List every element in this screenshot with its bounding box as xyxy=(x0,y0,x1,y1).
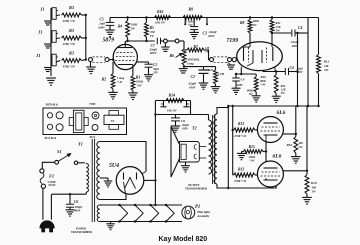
capacitor tick Ca xyxy=(160,101,166,107)
tube heater 2 xyxy=(134,204,143,223)
layout socket with key xyxy=(92,112,99,119)
label R3 #3 xyxy=(62,50,76,68)
switch S1 contact 1 xyxy=(55,160,59,164)
svg-text:1 meg: 1 meg xyxy=(186,62,194,66)
svg-text:S1: S1 xyxy=(57,149,62,154)
label R5 xyxy=(150,26,155,38)
label 7199 xyxy=(227,38,239,44)
label C5 xyxy=(99,18,107,30)
speaker voice coil frame xyxy=(180,142,200,163)
resistor R13b xyxy=(233,173,258,177)
label F1 xyxy=(48,174,56,187)
wire R7 to shield xyxy=(204,50,210,60)
capacitor C2 xyxy=(199,67,209,83)
svg-text:R10: R10 xyxy=(311,181,317,185)
V3 grid dashed xyxy=(261,130,281,132)
wire grid feed bus xyxy=(232,106,234,175)
layout transformer T1 xyxy=(104,111,124,130)
svg-text:470K ½W: 470K ½W xyxy=(62,65,76,69)
svg-text:470K ½W: 470K ½W xyxy=(233,134,247,138)
svg-text:400V: 400V xyxy=(207,34,216,38)
ground at jack 2 xyxy=(44,44,52,48)
capacitor C3 xyxy=(190,18,198,33)
svg-text:5U4: 5U4 xyxy=(90,135,96,139)
resistor R3 #2 xyxy=(62,36,82,40)
resistor R1 xyxy=(131,65,135,93)
ground C8 xyxy=(171,126,181,132)
V2 pentode plate xyxy=(271,45,274,62)
label R15 xyxy=(249,145,257,162)
shield connector c1 xyxy=(210,58,214,62)
svg-text:6L6: 6L6 xyxy=(273,153,282,159)
svg-text:R16: R16 xyxy=(287,143,293,147)
label J1 #2 xyxy=(37,30,43,35)
V1 cathode xyxy=(118,64,133,66)
label J1 #3 xyxy=(35,53,41,58)
T1 center tap ground xyxy=(100,178,112,187)
wire fuse to switch xyxy=(42,162,54,169)
label P1 xyxy=(195,205,210,218)
V1 suppressor dashed xyxy=(116,56,135,58)
ground shield xyxy=(86,62,96,74)
label C6 xyxy=(74,200,83,213)
svg-text:R13: R13 xyxy=(238,168,244,172)
V4 grid dashed xyxy=(261,175,281,177)
svg-text:R16: R16 xyxy=(157,10,163,14)
label R8 xyxy=(240,19,260,27)
ground R21 xyxy=(211,87,221,93)
wire plug left xyxy=(42,188,44,219)
wire heater winding taps xyxy=(100,205,103,222)
label R13b xyxy=(233,168,247,184)
resistor R3 #3 xyxy=(62,59,82,63)
svg-text:10K 1W: 10K 1W xyxy=(167,109,177,113)
V1 plate xyxy=(118,41,132,48)
resistor R21 xyxy=(214,67,218,87)
ground R1 xyxy=(128,93,138,100)
voice coil turns xyxy=(194,145,196,159)
svg-text:C4: C4 xyxy=(298,26,303,30)
label C7 xyxy=(149,44,158,55)
resistor R16 xyxy=(155,16,171,20)
V3 screen dashed xyxy=(262,126,280,128)
ground C5 xyxy=(105,30,115,37)
rectifier V5 5U4 envelope xyxy=(116,167,144,195)
wire between connectors xyxy=(167,40,175,42)
wire B+ rail top xyxy=(110,17,319,19)
beam tetrode V3 6L6 envelope xyxy=(257,117,283,143)
resistor R15 xyxy=(242,150,267,154)
label sockets bottom xyxy=(45,136,57,140)
svg-text:600V: 600V xyxy=(150,51,158,55)
label R4 xyxy=(118,23,138,31)
svg-text:470K ½W: 470K ½W xyxy=(233,179,247,183)
svg-text:½W: ½W xyxy=(137,84,142,88)
wire vertical B xyxy=(307,33,309,106)
wire primary bottom xyxy=(51,193,86,195)
T1 core xyxy=(92,139,94,222)
svg-text:1W: 1W xyxy=(150,34,155,38)
V4 cathode xyxy=(264,178,278,180)
ground filament xyxy=(106,222,115,230)
wire plug right xyxy=(50,194,52,219)
svg-text:C6: C6 xyxy=(74,200,79,204)
ground R16b xyxy=(291,157,301,164)
svg-text:FUSE: FUSE xyxy=(49,184,56,187)
svg-text:1W: 1W xyxy=(276,28,280,32)
ground R15 xyxy=(237,153,246,159)
svg-text:C4: C4 xyxy=(290,66,294,70)
svg-text:R3: R3 xyxy=(69,50,75,55)
chassis layout box xyxy=(43,108,127,135)
svg-text:R13: R13 xyxy=(238,122,244,126)
wire C4a to rail xyxy=(295,18,308,34)
label R1 xyxy=(136,75,144,88)
svg-text:450V: 450V xyxy=(188,85,197,89)
label R11b xyxy=(281,84,287,95)
V2 triode plate xyxy=(244,44,251,61)
V5 plate 1 xyxy=(137,172,147,180)
resistor R14 xyxy=(166,99,184,103)
svg-text:J1: J1 xyxy=(39,7,45,12)
label C3 xyxy=(203,30,217,38)
V3 plate xyxy=(264,122,278,124)
voice coil inner xyxy=(181,144,186,159)
resistor R12 xyxy=(317,55,321,74)
jack J1 input 3 xyxy=(52,54,60,66)
switch S1 blade xyxy=(58,153,71,161)
ground C3 xyxy=(189,32,199,38)
svg-text:T1: T1 xyxy=(111,119,115,123)
shield connector c2 xyxy=(228,58,232,62)
beam tetrode V4 6L6 envelope xyxy=(257,161,283,187)
wire pentode cathode xyxy=(263,70,286,72)
svg-text:J1: J1 xyxy=(35,53,41,58)
label R13a xyxy=(233,122,247,138)
svg-text:Kay Model 820: Kay Model 820 xyxy=(159,236,208,243)
svg-text:TRANSFORMER: TRANSFORMER xyxy=(185,187,208,190)
V2 triode grid dashed xyxy=(248,48,250,63)
resistor R5 xyxy=(145,16,149,41)
node plate wire xyxy=(126,40,155,42)
T2 primary winding xyxy=(214,114,217,184)
resistor R8 xyxy=(248,16,252,44)
capacitor tick Cb xyxy=(183,101,189,107)
ground jack bus xyxy=(46,78,56,85)
svg-text:10K 1W: 10K 1W xyxy=(155,21,165,25)
layout socket small 2 xyxy=(47,124,52,129)
wire V4 plate tap xyxy=(283,106,308,172)
caption Kay Model 820 xyxy=(159,236,208,243)
wire vertical A xyxy=(296,32,298,106)
R6 wiper arrow xyxy=(176,53,183,58)
ground P2 xyxy=(161,43,170,52)
label R2 xyxy=(102,76,125,84)
label output transformer xyxy=(185,184,208,191)
shielded cable dashes xyxy=(93,57,106,62)
wire V3 plate tap xyxy=(283,106,297,135)
speaker cone xyxy=(171,127,180,178)
switch S1 contact 2 xyxy=(74,161,77,164)
rail R14 top xyxy=(155,100,190,102)
potentiometer R9 on rail xyxy=(183,16,203,20)
R9 terminal a xyxy=(184,18,186,26)
svg-text:R9: R9 xyxy=(189,7,194,12)
T2 primary bottom lead xyxy=(217,184,276,188)
label R22 xyxy=(247,89,254,97)
svg-text:600V: 600V xyxy=(237,84,243,87)
wire switch to primary xyxy=(78,162,85,164)
wire R3 common bus xyxy=(85,14,87,61)
label 6L6 no1 xyxy=(277,110,286,116)
label 5879 xyxy=(103,38,115,44)
label R7 xyxy=(194,45,210,53)
wire R3 outputs to bus xyxy=(82,15,86,61)
svg-text:5W: 5W xyxy=(281,91,285,95)
ground R10b xyxy=(302,197,312,204)
label power transformer xyxy=(71,228,92,235)
layout socket small 3 xyxy=(92,125,98,131)
svg-text:½W: ½W xyxy=(117,80,122,84)
V2 triode cathode xyxy=(241,50,253,68)
resistor R7 xyxy=(184,48,204,52)
wire T2 right vertical xyxy=(227,106,229,189)
R9 terminal b xyxy=(206,18,208,26)
ground R10a xyxy=(272,96,281,102)
svg-text:4.7M: 4.7M xyxy=(217,72,225,76)
capacitor C7 xyxy=(157,38,163,45)
label R9 xyxy=(186,7,196,27)
T1 HV secondary xyxy=(97,142,100,200)
T2 secondary winding xyxy=(209,115,212,175)
capacitor C5 xyxy=(106,18,115,30)
pentode V1 5879 envelope xyxy=(113,44,137,69)
layout socket big 2 xyxy=(56,124,63,131)
label T1 xyxy=(78,142,83,147)
label R3 #1 xyxy=(62,5,76,23)
svg-text:C8: C8 xyxy=(181,119,185,123)
fuse F1 xyxy=(40,169,46,189)
connector P2 xyxy=(164,39,168,43)
wire 5U4 output xyxy=(144,179,156,181)
ground speaker xyxy=(181,162,190,172)
layout socket small 1 xyxy=(47,113,52,118)
rail R14 bottom xyxy=(155,101,208,115)
label 6L6 no2 xyxy=(273,153,282,159)
label C4c xyxy=(237,77,245,87)
shielded lead dashes 7199 xyxy=(214,57,228,62)
svg-text:C4: C4 xyxy=(241,77,245,81)
svg-text:600V: 600V xyxy=(99,25,107,29)
tube heater 4 xyxy=(165,204,174,223)
V5 plate 2 xyxy=(124,173,126,194)
label R3 #2 xyxy=(62,28,76,46)
label C4b xyxy=(290,66,304,74)
svg-text:Assembly: Assembly xyxy=(196,214,210,218)
label R14 xyxy=(167,93,177,113)
resistor R13a xyxy=(233,128,258,132)
ground at jack 1 xyxy=(44,21,52,25)
capacitor C1 xyxy=(137,62,153,74)
V2 pentode grid dashed xyxy=(266,48,268,63)
voice coil link top xyxy=(199,146,206,148)
label R10a xyxy=(260,75,267,86)
label C4a xyxy=(291,26,303,48)
label sockets top xyxy=(46,103,59,107)
shield connector left xyxy=(89,58,93,62)
label S1 xyxy=(57,149,62,154)
svg-text:TRANSFORMER: TRANSFORMER xyxy=(71,231,92,234)
jack J1 input 1 xyxy=(52,8,60,20)
resistor R22 800ohm xyxy=(254,74,258,95)
label R16b xyxy=(287,141,304,149)
svg-text:C3: C3 xyxy=(203,32,208,36)
wire HV top to plate xyxy=(100,142,146,172)
label R16 xyxy=(155,10,165,24)
label sockets top right xyxy=(89,102,96,106)
svg-text:R21: R21 xyxy=(208,68,214,72)
svg-text:½W: ½W xyxy=(250,159,255,163)
V3 cathode xyxy=(264,135,278,142)
label C1 xyxy=(152,63,159,74)
label R12 xyxy=(323,60,330,73)
svg-text:R2: R2 xyxy=(102,77,107,82)
svg-text:C2: C2 xyxy=(191,75,196,79)
resistor R16b xyxy=(294,134,298,156)
label T2 xyxy=(192,126,197,131)
grid connector 7199 xyxy=(232,58,237,62)
resistor R3 #1 xyxy=(62,13,82,17)
capacitor C8 xyxy=(171,115,180,126)
T2 core xyxy=(213,115,215,184)
svg-text:F1: F1 xyxy=(49,174,54,179)
tube heater 3 xyxy=(149,204,158,223)
AC plug xyxy=(40,221,54,232)
bus bar xyxy=(227,105,320,107)
svg-text:R14: R14 xyxy=(169,93,176,98)
wire to volume pot xyxy=(179,41,184,49)
svg-text:½W: ½W xyxy=(261,82,266,86)
svg-text:1W: 1W xyxy=(298,145,303,149)
V1 screen grid dashed xyxy=(117,52,134,54)
svg-text:1M: 1M xyxy=(324,64,329,68)
capacitor C4b xyxy=(285,68,298,75)
potentiometer R6 xyxy=(182,49,186,65)
ground at jack 3 xyxy=(44,68,52,72)
label C2 xyxy=(188,75,197,90)
svg-text:R4: R4 xyxy=(118,25,122,29)
voice coil link bottom xyxy=(199,157,206,159)
wire triode cathode xyxy=(235,68,256,75)
svg-text:1W: 1W xyxy=(249,92,253,96)
svg-text:2W: 2W xyxy=(130,26,136,30)
T1 primary winding xyxy=(86,163,88,194)
label R11a xyxy=(276,21,282,32)
svg-text:T1: T1 xyxy=(78,142,83,147)
V4 screen dashed xyxy=(262,171,280,173)
node sleeve ground bus xyxy=(50,8,52,76)
wire R6 bottom xyxy=(183,65,216,68)
svg-text:5U4: 5U4 xyxy=(109,163,119,169)
layout socket big 1 xyxy=(56,112,63,119)
V1 control grid dashed xyxy=(115,60,135,62)
label R6 xyxy=(170,54,201,66)
T2 primary top lead xyxy=(217,106,228,114)
V4 plate xyxy=(264,167,278,169)
pilot lamp P1 xyxy=(182,206,195,219)
svg-text:1W: 1W xyxy=(253,23,258,27)
svg-text:1W: 1W xyxy=(312,189,317,193)
shield connector right xyxy=(105,58,109,62)
wire B+ feed vertical xyxy=(154,101,156,207)
svg-text:R15: R15 xyxy=(249,145,255,149)
svg-text:6L6: 6L6 xyxy=(277,110,286,116)
triode-pentode V2 7199 envelope xyxy=(237,42,283,71)
resistor R10a 180K xyxy=(274,72,278,96)
capacitor C4a xyxy=(292,30,295,37)
filament rail top xyxy=(103,204,182,206)
connector P3 xyxy=(175,39,179,43)
wire R12 to bus bar xyxy=(318,74,320,107)
svg-text:470K ½W: 470K ½W xyxy=(62,42,76,46)
label C8 xyxy=(181,119,189,130)
capacitor C4c xyxy=(232,74,240,88)
svg-text:7199: 7199 xyxy=(227,38,239,44)
ground R2 xyxy=(108,92,118,99)
ground R22 xyxy=(252,96,261,102)
wire rail corner xyxy=(318,18,320,55)
label J1 #1 xyxy=(39,7,45,12)
svg-text:5879: 5879 xyxy=(103,38,115,44)
svg-text:R3: R3 xyxy=(69,28,75,33)
svg-text:600V: 600V xyxy=(74,209,81,213)
ground C2 xyxy=(199,83,209,89)
layout transformer T2 xyxy=(69,110,88,132)
V2 pentode cathode xyxy=(262,50,275,72)
ground C6 xyxy=(66,210,75,216)
svg-text:470K ½W: 470K ½W xyxy=(62,19,76,23)
ground R6 xyxy=(179,69,188,73)
svg-text:5U4 6L6: 5U4 6L6 xyxy=(45,136,57,140)
resistor R2 xyxy=(111,62,115,92)
svg-text:J1: J1 xyxy=(37,30,43,35)
tube heater 1 xyxy=(118,204,127,223)
svg-text:R3: R3 xyxy=(69,5,75,10)
jack J1 input 2 xyxy=(52,31,60,43)
resistor R10b xyxy=(305,171,309,197)
svg-text:450V: 450V xyxy=(181,127,189,130)
resistor R11a xyxy=(270,16,274,33)
svg-text:R6: R6 xyxy=(170,54,175,58)
svg-text:OUTPUT: OUTPUT xyxy=(188,184,200,187)
svg-text:7199: 7199 xyxy=(89,102,96,106)
wire shield to grid xyxy=(109,58,114,60)
label R21 xyxy=(208,68,225,76)
T1 heater winding xyxy=(97,205,100,222)
wire cathodes common xyxy=(265,142,267,162)
wire pentode plate node xyxy=(271,32,291,45)
svg-text:T2: T2 xyxy=(192,126,197,131)
wire V1 plate to node xyxy=(124,41,126,44)
resistor R4 xyxy=(126,16,130,41)
svg-text:5879 6L6: 5879 6L6 xyxy=(46,103,59,107)
ground shield 7199 xyxy=(227,62,235,69)
label 5U4 xyxy=(109,163,119,169)
filament rail bottom xyxy=(103,221,182,223)
V5 filament xyxy=(125,178,136,189)
capacitor C6 xyxy=(66,194,74,209)
label sockets bottom right xyxy=(90,135,96,139)
